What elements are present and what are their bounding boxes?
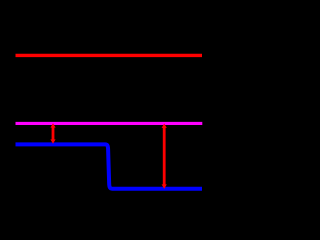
left double-headed arrow (red) [50, 123, 55, 144]
vacuum level line (red) [16, 54, 203, 57]
fermi/valence level stepped line (blue) [16, 144, 203, 188]
conduction band line (magenta) [16, 122, 203, 125]
right double-headed arrow (red) [162, 124, 167, 189]
